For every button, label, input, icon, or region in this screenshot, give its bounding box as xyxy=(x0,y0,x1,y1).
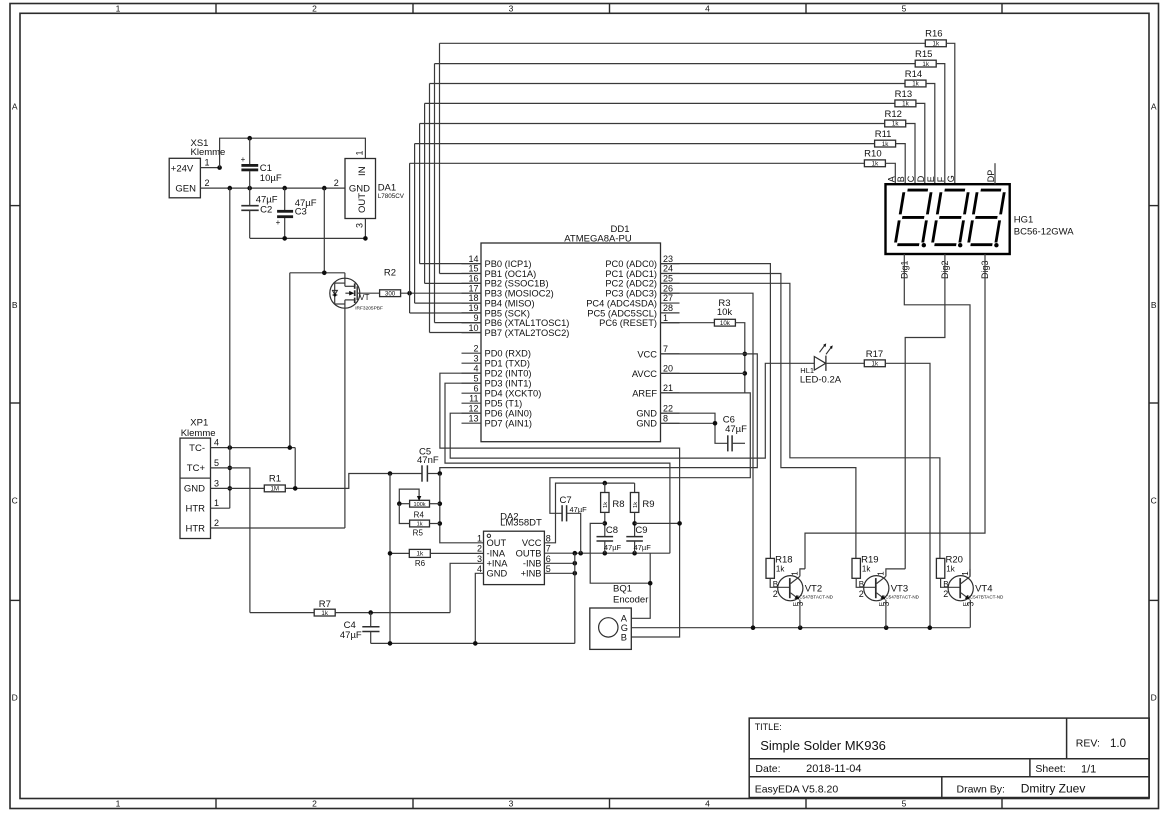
svg-text:13: 13 xyxy=(468,413,478,423)
svg-text:GND: GND xyxy=(636,409,657,419)
svg-text:3: 3 xyxy=(473,353,478,363)
svg-text:Drawn By:: Drawn By: xyxy=(957,784,1005,796)
svg-text:3: 3 xyxy=(796,601,805,606)
pin 3 PD1 xyxy=(462,362,482,364)
resistor R2 300 xyxy=(380,290,401,297)
wire GND pins to C6 xyxy=(661,413,728,443)
svg-text:47µF: 47µF xyxy=(634,543,652,552)
svg-text:PD7 (AIN1): PD7 (AIN1) xyxy=(485,419,533,429)
resistor R12 1k xyxy=(885,120,906,127)
wire R9 node to PD2 column xyxy=(635,522,680,524)
wire VT2 emitter xyxy=(799,600,801,628)
connector XS1 Klemme xyxy=(169,158,200,198)
junction R17 gnd xyxy=(928,625,933,630)
wire PC0 to R18 xyxy=(661,264,771,559)
svg-text:8: 8 xyxy=(663,414,668,424)
junction VT2 emitter xyxy=(798,625,803,630)
wire R14 to display pin xyxy=(926,84,935,185)
svg-text:OUT: OUT xyxy=(487,538,507,548)
wire bus seg-A (R10 to PB3/PB5) xyxy=(410,162,865,164)
pin 7 VCC xyxy=(661,353,680,355)
svg-text:EasyEDA V5.8.20: EasyEDA V5.8.20 xyxy=(755,784,839,796)
svg-text:17: 17 xyxy=(468,283,478,293)
wire DA1 pin3 to output rail xyxy=(364,219,366,239)
svg-text:2: 2 xyxy=(312,799,317,809)
wire drain horizontal xyxy=(290,272,345,274)
junction R1 node xyxy=(293,486,298,491)
junction A line xyxy=(648,581,653,586)
svg-text:1M: 1M xyxy=(270,486,279,493)
svg-text:Dmitry Zuev: Dmitry Zuev xyxy=(1021,782,1086,796)
svg-text:C8: C8 xyxy=(606,525,618,536)
svg-text:1: 1 xyxy=(791,571,800,576)
svg-text:18: 18 xyxy=(468,293,478,303)
svg-text:4: 4 xyxy=(705,3,710,13)
svg-text:PC1 (ADC1): PC1 (ADC1) xyxy=(605,269,657,279)
svg-text:IN: IN xyxy=(357,166,368,176)
svg-text:1k: 1k xyxy=(946,565,955,574)
svg-text:R11: R11 xyxy=(875,129,892,140)
svg-text:C9: C9 xyxy=(635,525,647,536)
svg-text:3: 3 xyxy=(354,223,364,228)
svg-text:R2: R2 xyxy=(384,268,396,279)
wire R5 left xyxy=(399,504,409,524)
svg-text:PC3 (ADC3): PC3 (ADC3) xyxy=(605,289,657,299)
transistor VT IRF3205PBF (MOSFET) xyxy=(344,273,346,287)
junction TC column gnd xyxy=(388,641,393,646)
pin 5 PD3 xyxy=(462,382,482,384)
pin 11 PD5 xyxy=(462,402,482,404)
wire TC- row xyxy=(211,447,296,449)
svg-text:28: 28 xyxy=(663,303,673,313)
svg-text:R4: R4 xyxy=(414,511,425,520)
svg-text:R7: R7 xyxy=(319,599,331,610)
svg-text:TC+: TC+ xyxy=(187,463,206,474)
transistor VT2 BC547BTACT-ND xyxy=(778,576,803,601)
svg-text:TITLE:: TITLE: xyxy=(755,722,782,732)
svg-text:Date:: Date: xyxy=(755,763,780,775)
wire R13 to display pin xyxy=(916,103,925,184)
wire LED to R17 xyxy=(826,362,864,364)
svg-text:PB3 (MOSIOC2): PB3 (MOSIOC2) xyxy=(485,289,554,299)
svg-text:1k: 1k xyxy=(776,565,785,574)
svg-text:5: 5 xyxy=(902,3,907,13)
svg-text:15: 15 xyxy=(468,264,478,274)
decimal points xyxy=(922,243,926,247)
pin 12 PD6 xyxy=(462,412,482,414)
svg-text:PC2 (ADC2): PC2 (ADC2) xyxy=(605,279,657,289)
pin 22 GND xyxy=(661,412,680,414)
svg-text:VT: VT xyxy=(359,293,369,302)
pin 15 PB1 xyxy=(462,272,482,274)
svg-text:R14: R14 xyxy=(905,69,922,80)
wire C5 node down to DA2 pin1 xyxy=(440,474,484,543)
wire pin3 to R7 line xyxy=(450,563,483,612)
svg-text:10: 10 xyxy=(468,323,478,333)
svg-text:GND: GND xyxy=(184,484,205,495)
junction GEN-C3 xyxy=(282,186,287,191)
svg-text:PD5 (T1): PD5 (T1) xyxy=(485,399,523,409)
capacitor C6 47uF xyxy=(727,435,729,451)
svg-text:C: C xyxy=(1151,496,1157,506)
svg-text:1k: 1k xyxy=(872,161,879,168)
7-segment digits xyxy=(895,190,931,245)
svg-text:PD0 (RXD): PD0 (RXD) xyxy=(485,349,532,359)
resistor R14 1k xyxy=(905,80,926,87)
svg-text:8: 8 xyxy=(546,533,551,543)
resistor R15 1k xyxy=(915,60,936,67)
svg-text:A: A xyxy=(1151,102,1157,112)
svg-text:VT4: VT4 xyxy=(975,584,992,595)
svg-text:BC547BTACT-ND: BC547BTACT-ND xyxy=(967,595,1004,600)
wire encoder G ground rail xyxy=(631,627,970,629)
svg-text:GND: GND xyxy=(487,569,508,579)
svg-text:2: 2 xyxy=(859,589,864,599)
connector XP1 Klemme xyxy=(180,438,211,538)
svg-text:3: 3 xyxy=(214,478,219,488)
svg-text:PB2 (SSOC1B): PB2 (SSOC1B) xyxy=(485,279,549,289)
svg-text:B: B xyxy=(621,632,627,642)
wire R9 bottom xyxy=(634,512,636,536)
wire pins567 column to ground rail xyxy=(574,553,576,643)
capacitor C8 47uF xyxy=(597,536,614,538)
wire R17 to ground rail xyxy=(885,363,930,627)
svg-text:4: 4 xyxy=(705,799,710,809)
svg-text:2: 2 xyxy=(943,589,948,599)
pin 1 PC6 xyxy=(661,322,680,324)
svg-text:PD4 (XCKT0): PD4 (XCKT0) xyxy=(485,389,542,399)
wire bus seg-G (R16 to PB1) xyxy=(440,42,926,44)
svg-text:9: 9 xyxy=(473,313,478,323)
svg-text:2: 2 xyxy=(773,589,778,599)
wire PD2 net to encoder B xyxy=(440,373,680,637)
svg-text:1: 1 xyxy=(663,313,668,323)
wire GEN to drain node xyxy=(323,188,325,273)
svg-text:1: 1 xyxy=(477,533,482,543)
wire bus seg-D (R13 to PB2) xyxy=(425,102,895,104)
wire pin6 stub xyxy=(544,562,574,564)
svg-text:+: + xyxy=(241,155,246,164)
junction GEN-XP1 xyxy=(228,186,233,191)
svg-text:C: C xyxy=(906,175,916,182)
wire R20 to base xyxy=(941,578,961,587)
svg-text:23: 23 xyxy=(663,254,673,264)
svg-text:21: 21 xyxy=(663,383,673,393)
wire bus seg-E (R14 to PB7) xyxy=(430,83,906,85)
wire R8 bottom xyxy=(604,512,606,536)
junction R4 right xyxy=(438,501,443,506)
pin 6 PD4 xyxy=(462,392,482,394)
junction drain xyxy=(322,271,327,276)
svg-text:5: 5 xyxy=(214,458,219,468)
wire R8 node to encoder A line xyxy=(590,523,650,583)
svg-text:6: 6 xyxy=(473,383,478,393)
svg-text:1k: 1k xyxy=(416,551,424,558)
wire R6 to DA2 pin2 xyxy=(430,552,483,554)
wire Dig1 to VT4 collector xyxy=(904,254,970,576)
svg-text:B: B xyxy=(896,176,906,182)
svg-text:PB0 (ICP1): PB0 (ICP1) xyxy=(485,259,532,269)
svg-text:1k: 1k xyxy=(633,502,639,508)
svg-text:E: E xyxy=(926,176,936,182)
pin 13 PD7 xyxy=(462,422,482,424)
wire pin5 stub xyxy=(544,572,574,574)
junction AVCC pin20 xyxy=(743,371,748,376)
svg-text:REV:: REV: xyxy=(1076,738,1100,750)
wire R4 left xyxy=(399,503,409,505)
wire R11 to display pin xyxy=(896,144,906,185)
wire PD3 net to OUTB line xyxy=(445,383,670,553)
svg-text:L7805CV: L7805CV xyxy=(378,193,405,200)
svg-text:47µF: 47µF xyxy=(570,505,588,514)
svg-text:3: 3 xyxy=(509,799,514,809)
wire R10 to display pin xyxy=(885,163,895,184)
svg-text:1k: 1k xyxy=(922,61,929,68)
svg-text:+24V: +24V xyxy=(171,164,194,175)
svg-text:PD6 (AIN0): PD6 (AIN0) xyxy=(485,409,533,419)
wire gate to R2 xyxy=(357,292,379,294)
svg-text:R17: R17 xyxy=(866,349,883,360)
svg-text:GND: GND xyxy=(636,419,657,429)
pin 16 PB2 xyxy=(462,282,482,284)
svg-text:D: D xyxy=(12,693,18,703)
svg-text:1: 1 xyxy=(877,571,886,576)
svg-text:C3: C3 xyxy=(295,207,307,218)
svg-text:B: B xyxy=(1151,300,1157,310)
junction GEN-C1C2 xyxy=(247,186,252,191)
svg-text:GND: GND xyxy=(349,184,370,195)
svg-text:C2: C2 xyxy=(260,204,272,215)
svg-text:VCC: VCC xyxy=(522,538,542,548)
svg-text:AVCC: AVCC xyxy=(632,369,657,379)
pin 27 PC4 xyxy=(661,302,680,304)
resistor R9 1k xyxy=(634,483,636,492)
svg-text:1k: 1k xyxy=(872,361,879,368)
wire +24V riser xyxy=(220,138,366,167)
resistor R13 1k xyxy=(895,100,916,107)
pin 9 PB6 xyxy=(462,322,482,324)
svg-text:XP1: XP1 xyxy=(190,418,208,429)
svg-text:LM358DT: LM358DT xyxy=(500,518,542,529)
svg-text:7: 7 xyxy=(663,344,668,354)
junction R4/R5 left xyxy=(397,501,402,506)
wire bus seg-C (R12 to PB0) xyxy=(420,123,885,125)
svg-text:20: 20 xyxy=(663,364,673,374)
junction XS1 pin1 xyxy=(217,165,222,170)
wire OUTB line xyxy=(544,552,670,554)
svg-text:Simple Solder MK936: Simple Solder MK936 xyxy=(760,738,886,753)
svg-text:PB7 (XTAL2TOSC2): PB7 (XTAL2TOSC2) xyxy=(485,328,570,338)
svg-text:1: 1 xyxy=(961,571,970,576)
svg-text:PB6 (XTAL1TOSC1): PB6 (XTAL1TOSC1) xyxy=(485,318,570,328)
svg-text:C: C xyxy=(12,496,18,506)
svg-text:BC56-12GWA: BC56-12GWA xyxy=(1014,227,1074,238)
wire Dig3 to VT2 collector xyxy=(805,254,985,569)
svg-text:F: F xyxy=(936,176,946,182)
svg-text:D: D xyxy=(1151,693,1157,703)
svg-text:A: A xyxy=(12,102,18,112)
svg-text:HG1: HG1 xyxy=(1014,215,1034,226)
resistor R18 1k xyxy=(766,558,774,578)
svg-text:PD3 (INT1): PD3 (INT1) xyxy=(485,379,532,389)
wire R19 to base xyxy=(856,578,876,587)
svg-text:R16: R16 xyxy=(925,29,942,40)
wire PD6 net to LED xyxy=(450,363,814,458)
svg-text:1: 1 xyxy=(205,157,210,167)
svg-text:LED-0.2A: LED-0.2A xyxy=(800,374,842,385)
wire PC3 to ground rail xyxy=(661,293,754,628)
pin 10 PB7 xyxy=(462,332,482,334)
svg-text:HTR: HTR xyxy=(185,504,205,515)
svg-text:25: 25 xyxy=(663,274,673,284)
display HG1 BC56-12GWA xyxy=(886,184,1010,254)
svg-text:4: 4 xyxy=(473,363,478,373)
junction R5 right xyxy=(438,521,443,526)
op-amp DA2 LM358DT xyxy=(484,531,545,584)
svg-text:2: 2 xyxy=(473,343,478,353)
svg-text:R6: R6 xyxy=(415,559,426,568)
wire drain down to TC- xyxy=(289,273,291,448)
capacitor C7 47uF xyxy=(561,505,563,521)
svg-text:-INB: -INB xyxy=(523,559,542,569)
svg-text:3: 3 xyxy=(509,3,514,13)
svg-text:PC0 (ADC0): PC0 (ADC0) xyxy=(605,259,657,269)
svg-text:BC547BTACT-ND: BC547BTACT-ND xyxy=(882,595,919,600)
svg-text:3: 3 xyxy=(882,601,891,606)
svg-text:BQ1: BQ1 xyxy=(613,583,632,594)
R4 wiper loop arrow xyxy=(399,489,419,504)
svg-text:PB5 (SCK): PB5 (SCK) xyxy=(485,308,530,318)
resistor R20 1k xyxy=(936,558,944,578)
svg-text:3: 3 xyxy=(967,601,976,606)
svg-text:14: 14 xyxy=(468,254,478,264)
svg-text:BC547BTACT-ND: BC547BTACT-ND xyxy=(796,595,833,600)
svg-text:5: 5 xyxy=(473,373,478,383)
svg-text:-INA: -INA xyxy=(487,549,506,559)
wire pin8 VCC riser to R8 R9 xyxy=(544,483,634,543)
junction PD2/C9 line xyxy=(677,521,682,526)
wire VT4 collector stub xyxy=(969,569,971,576)
svg-text:26: 26 xyxy=(663,283,673,293)
svg-text:G: G xyxy=(946,175,956,182)
resistor R6 1k xyxy=(390,552,409,554)
transistor VT3 BC547BTACT-ND xyxy=(864,576,889,601)
junction C3 bottom xyxy=(282,236,287,241)
pin 18 PB4 xyxy=(462,302,482,304)
pin 24 PC1 xyxy=(661,272,680,274)
svg-text:24: 24 xyxy=(663,264,673,274)
resistor R17 1k xyxy=(864,360,885,367)
svg-text:12: 12 xyxy=(468,403,478,413)
svg-text:1/1: 1/1 xyxy=(1081,763,1096,775)
svg-text:R10: R10 xyxy=(864,149,881,160)
capacitor C3 47uF polarized xyxy=(284,188,286,210)
svg-text:D: D xyxy=(916,175,926,182)
svg-text:27: 27 xyxy=(663,293,673,303)
svg-text:1: 1 xyxy=(214,498,219,508)
pin 8 GND xyxy=(661,422,680,424)
svg-text:1: 1 xyxy=(116,799,121,809)
svg-text:2: 2 xyxy=(312,3,317,13)
pin 21 AREF xyxy=(661,392,680,394)
svg-text:IRF3205PBF: IRF3205PBF xyxy=(355,305,383,311)
svg-text:10k: 10k xyxy=(717,307,733,318)
pin 25 PC2 xyxy=(661,282,680,284)
svg-text:1.0: 1.0 xyxy=(1110,738,1126,750)
transistor VT4 BC547BTACT-ND xyxy=(948,576,973,601)
svg-text:R15: R15 xyxy=(915,49,932,60)
encoder BQ1 xyxy=(590,608,632,649)
svg-text:2: 2 xyxy=(477,544,482,554)
svg-text:22: 22 xyxy=(663,403,673,413)
junction VT3 emitter xyxy=(884,625,889,630)
wire VT3 emitter xyxy=(885,600,887,628)
svg-text:1k: 1k xyxy=(882,141,889,148)
junction R8 top xyxy=(603,481,608,486)
svg-text:1k: 1k xyxy=(892,121,899,128)
svg-text:Encoder: Encoder xyxy=(613,594,648,605)
capacitor C9 47uF xyxy=(626,536,643,538)
wire R5 right stub xyxy=(430,523,440,525)
svg-text:R12: R12 xyxy=(884,109,901,120)
capacitor C1 10uF xyxy=(249,138,251,164)
svg-text:ATMEGA8A-PU: ATMEGA8A-PU xyxy=(564,234,632,245)
pin DP stub xyxy=(994,163,996,184)
junction TC- drain line xyxy=(288,445,293,450)
svg-text:PC5 (ADC5SCL): PC5 (ADC5SCL) xyxy=(587,308,657,318)
svg-text:PD1 (TXD): PD1 (TXD) xyxy=(485,359,530,369)
svg-text:10µF: 10µF xyxy=(260,173,282,184)
wire HTR1 stub xyxy=(211,507,230,509)
svg-text:R9: R9 xyxy=(642,499,654,510)
resistor R19 1k xyxy=(852,558,860,578)
capacitor C2 47uF xyxy=(249,188,251,206)
svg-text:1k: 1k xyxy=(603,502,609,508)
svg-text:2: 2 xyxy=(334,178,339,188)
svg-text:300: 300 xyxy=(385,290,396,297)
wire analog ground rail xyxy=(371,642,575,644)
svg-text:1k: 1k xyxy=(902,101,909,108)
svg-text:Klemme: Klemme xyxy=(181,428,216,439)
wire R18 to base xyxy=(770,578,790,587)
junction GND8 xyxy=(713,421,718,426)
pin 23 PC0 xyxy=(661,263,680,265)
pin 17 PB3 xyxy=(462,292,482,294)
wire AVCC row xyxy=(661,372,745,374)
wire GEN bus xyxy=(200,187,345,189)
svg-text:PB4 (MISO): PB4 (MISO) xyxy=(485,298,535,308)
svg-text:1k: 1k xyxy=(862,565,871,574)
wire R7 right to pin3 riser xyxy=(335,612,450,614)
svg-text:5: 5 xyxy=(546,564,551,574)
IC DD1 ATMEGA8A-PU xyxy=(481,243,661,442)
svg-text:1k: 1k xyxy=(417,522,423,528)
svg-text:R8: R8 xyxy=(612,499,624,510)
junction C1 top xyxy=(247,136,252,141)
svg-text:10k: 10k xyxy=(720,320,731,327)
wire Dig2 to VT3 collector xyxy=(905,254,945,569)
svg-text:PC6 (RESET): PC6 (RESET) xyxy=(599,318,657,328)
capacitor C4 47uF xyxy=(370,613,372,627)
wire PC2 to R20 xyxy=(661,283,940,558)
svg-text:5: 5 xyxy=(902,799,907,809)
regulator DA1 L7805CV xyxy=(345,159,376,219)
junction VCC pin7 xyxy=(743,352,748,357)
svg-text:1k: 1k xyxy=(321,610,328,617)
wire PC1 to R19 xyxy=(661,274,856,559)
svg-text:B: B xyxy=(12,300,18,310)
wire C7 right to OUTB xyxy=(567,513,581,553)
